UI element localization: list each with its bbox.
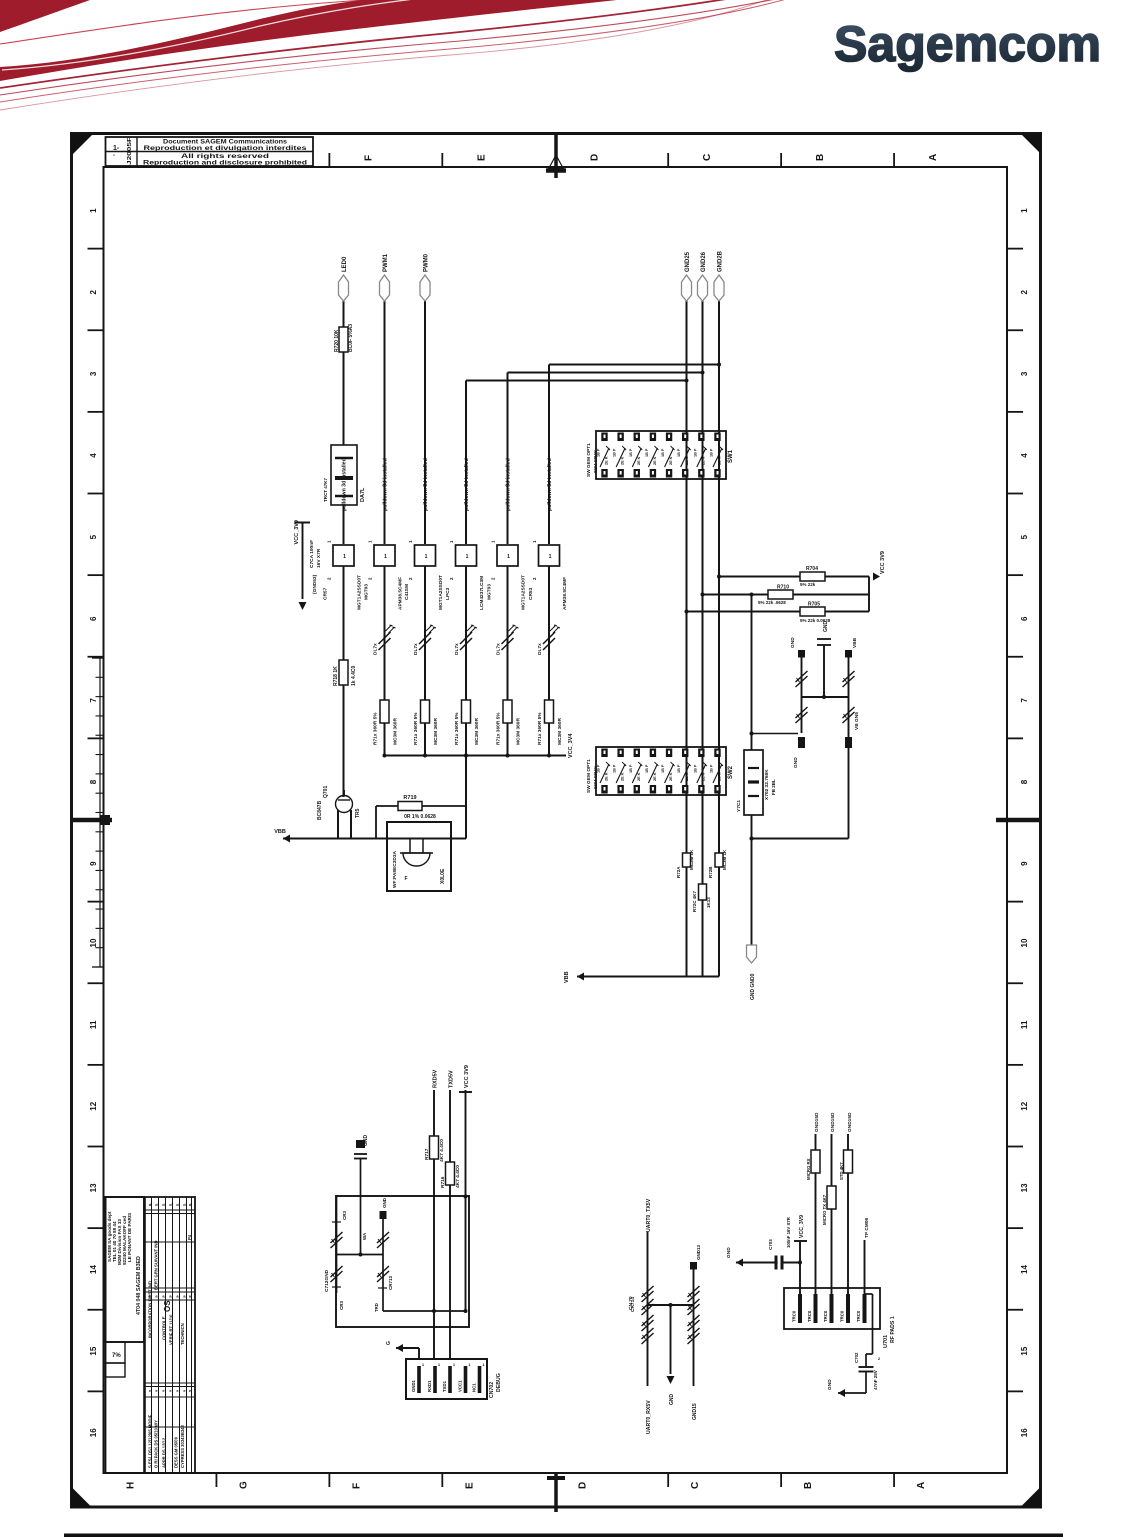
svg-text:GND15D: GND15D	[830, 1112, 836, 1132]
svg-text:DL7x: DL7x	[537, 643, 543, 655]
svg-text:pulldown 3d installed: pulldown 3d installed	[383, 458, 389, 511]
svg-text:F: F	[404, 876, 407, 882]
svg-text:13: 13	[89, 1183, 98, 1192]
svg-text:2E K: 2E K	[669, 456, 673, 465]
svg-text:GND: GND	[793, 757, 799, 768]
svg-text:MGT1A2SSD0T: MGT1A2SSD0T	[521, 575, 527, 610]
svg-text:GND: GND	[382, 1197, 387, 1208]
svg-text:GND15D: GND15D	[847, 1112, 853, 1132]
svg-text:R719: R719	[403, 795, 416, 801]
svg-text:DL7x: DL7x	[373, 643, 379, 655]
svg-text:F: F	[351, 1483, 362, 1489]
svg-text:7: 7	[89, 698, 98, 703]
svg-text:LED0: LED0	[342, 256, 348, 272]
svg-text:4K7 4.4C0: 4K7 4.4C0	[439, 1139, 445, 1162]
svg-text:R704: R704	[806, 566, 818, 572]
svg-text:15: 15	[89, 1346, 98, 1355]
svg-text:GND: GND	[790, 637, 796, 648]
svg-text:1: 1	[507, 554, 510, 560]
svg-text:VBB: VBB	[852, 637, 858, 648]
svg-text:CR714: CR714	[630, 1297, 636, 1312]
svg-text:GND GND0: GND GND0	[750, 973, 756, 1000]
svg-text:C7CA 100nF: C7CA 100nF	[309, 540, 315, 568]
svg-text:11: 11	[1020, 1020, 1029, 1029]
svg-text:-: -	[113, 153, 115, 159]
svg-text:R717: R717	[424, 1148, 430, 1160]
svg-text:2E K: 2E K	[717, 456, 721, 465]
svg-text:pulldown 3d installed: pulldown 3d installed	[547, 458, 553, 511]
svg-text:J2005F: J2005F	[127, 136, 133, 165]
svg-text:2E K: 2E K	[621, 456, 625, 465]
svg-text:LPC3: LPC3	[445, 587, 451, 600]
svg-text:1: 1	[1020, 208, 1029, 213]
svg-text:DL7x: DL7x	[413, 643, 419, 655]
svg-text:pulldown 3d installed: pulldown 3d installed	[423, 458, 429, 511]
svg-text:14: 14	[89, 1264, 98, 1273]
svg-text:UART0_RX5V: UART0_RX5V	[646, 1400, 652, 1434]
svg-text:GND: GND	[363, 1135, 369, 1147]
svg-text:VBB: VBB	[564, 971, 570, 983]
svg-text:GND26: GND26	[701, 251, 707, 272]
svg-text:CR57: CR57	[323, 587, 329, 600]
svg-text:SW2: SW2	[728, 765, 734, 779]
svg-text:2E K: 2E K	[685, 772, 689, 781]
svg-text:INCORPORATION FIRST IND: INCORPORATION FIRST IND	[148, 1281, 153, 1338]
svg-text:8: 8	[89, 779, 98, 784]
svg-text:12: 12	[1020, 1101, 1029, 1110]
svg-text:12: 12	[89, 1101, 98, 1110]
svg-text:VCC_3V9: VCC_3V9	[799, 1215, 805, 1238]
svg-text:BERT GRN SUIVANT IND: BERT GRN SUIVANT IND	[154, 1241, 159, 1290]
svg-text:4T04 048 SAGEM B3ED: 4T04 048 SAGEM B3ED	[136, 1256, 142, 1315]
svg-text:MGT1A2SSD0T: MGT1A2SSD0T	[357, 575, 363, 610]
svg-text:VCC1: VCC1	[458, 1380, 463, 1392]
svg-text:CR53: CR53	[528, 587, 534, 600]
svg-text:RXD5V: RXD5V	[433, 1069, 439, 1088]
svg-text:MC3M 1K: MC3M 1K	[722, 849, 727, 870]
svg-text:1B P: 1B P	[693, 448, 697, 457]
svg-text:VCC_3V9: VCC_3V9	[294, 520, 300, 544]
svg-text:PWM0: PWM0	[424, 253, 430, 272]
svg-text:1B P: 1B P	[709, 764, 713, 773]
svg-text:3: 3	[1020, 371, 1029, 376]
svg-text:WA: WA	[362, 1232, 367, 1240]
svg-text:UART0_TX5V: UART0_TX5V	[646, 1198, 652, 1232]
svg-text:2E K: 2E K	[653, 772, 657, 781]
svg-text:DESS GM 05/09: DESS GM 05/09	[174, 1436, 179, 1468]
svg-text:OS: OS	[163, 1300, 172, 1312]
svg-text:WF:PA8EC3D3A: WF:PA8EC3D3A	[392, 851, 398, 888]
svg-text:VERIF RT 11/10: VERIF RT 11/10	[169, 1314, 174, 1345]
svg-text:47nF 25V: 47nF 25V	[873, 1370, 878, 1390]
svg-text:1: 1	[466, 554, 469, 560]
svg-text:8: 8	[1020, 779, 1029, 784]
svg-text:2: 2	[89, 289, 98, 294]
svg-text:LCM4237LC3M: LCM4237LC3M	[479, 576, 485, 610]
svg-text:C41SM: C41SM	[404, 584, 410, 600]
svg-text:CR713: CR713	[388, 1275, 393, 1290]
svg-text:GND15D: GND15D	[814, 1112, 820, 1132]
svg-text:2E K: 2E K	[717, 772, 721, 781]
svg-text:MC3M 360R: MC3M 360R	[474, 718, 480, 745]
svg-text:5: 5	[89, 534, 98, 539]
svg-text:16V X7R: 16V X7R	[316, 548, 322, 568]
svg-text:APM38.5C4MF: APM38.5C4MF	[562, 577, 568, 610]
svg-text:MGT03: MGT03	[487, 584, 493, 600]
svg-text:U701: U701	[883, 1335, 889, 1348]
svg-text:FB 2BL: FB 2BL	[771, 779, 776, 795]
svg-text:6: 6	[89, 616, 98, 621]
svg-text:A: A	[916, 1482, 927, 1489]
svg-text:D: D	[577, 1482, 588, 1489]
svg-text:(GND53): (GND53)	[312, 574, 318, 594]
svg-text:BC847B: BC847B	[317, 800, 323, 820]
svg-text:1K13: 1K13	[706, 897, 711, 908]
svg-text:GND25: GND25	[685, 251, 691, 272]
svg-text:MICRO RX: MICRO RX	[806, 1158, 811, 1180]
svg-text:TR5: TR5	[355, 808, 361, 818]
svg-text:B: B	[815, 154, 826, 161]
svg-text:A: A	[928, 154, 939, 161]
svg-text:1: 1	[549, 554, 552, 560]
svg-text:1B P: 1B P	[661, 448, 665, 457]
svg-text:APM38.5C4MF: APM38.5C4MF	[398, 577, 404, 610]
svg-text:R716: R716	[440, 1176, 446, 1188]
svg-text:13: 13	[1020, 1183, 1029, 1192]
svg-text:1B P: 1B P	[709, 448, 713, 457]
svg-text:5% 22k: 5% 22k	[800, 582, 816, 587]
svg-text:R705: R705	[808, 602, 820, 608]
svg-text:CR3: CR3	[339, 1301, 344, 1310]
svg-text:R710: R710	[777, 585, 789, 591]
svg-text:1: 1	[89, 208, 98, 213]
svg-text:TRC0: TRC0	[823, 1310, 828, 1322]
svg-text:VCC 3V9: VCC 3V9	[880, 551, 886, 574]
svg-text:1-: 1-	[113, 145, 120, 152]
svg-text:C: C	[702, 154, 713, 161]
svg-text:CR3: CR3	[342, 1211, 347, 1220]
svg-text:DEBUG: DEBUG	[496, 1373, 502, 1392]
svg-text:8204 GRAY: 8204 GRAY	[593, 766, 598, 789]
svg-text:R72C 4K7: R72C 4K7	[692, 890, 697, 912]
svg-text:VCC 3V9: VCC 3V9	[464, 1065, 470, 1088]
svg-text:8204 GRAY: 8204 GRAY	[593, 450, 598, 473]
svg-text:Q701: Q701	[323, 786, 329, 798]
svg-text:O RI PACK DS 05/10 WY: O RI PACK DS 05/10 WY	[154, 1420, 159, 1468]
svg-text:2E K: 2E K	[669, 772, 673, 781]
svg-text:R72B: R72B	[708, 866, 713, 878]
svg-text:TRC0: TRC0	[840, 1310, 845, 1322]
svg-text:TRC0: TRC0	[807, 1310, 812, 1322]
svg-text:4K7 4.4C0: 4K7 4.4C0	[455, 1165, 461, 1188]
svg-text:R718 1K: R718 1K	[333, 666, 339, 686]
svg-text:X702 32.768K: X702 32.768K	[764, 769, 770, 800]
svg-text:MICRO TX 4K7: MICRO TX 4K7	[822, 1194, 827, 1225]
svg-text:R720 10K: R720 10K	[334, 329, 340, 352]
svg-text:TRCT 47K7: TRCT 47K7	[323, 477, 328, 502]
svg-text:MC3M 360R: MC3M 360R	[557, 718, 563, 745]
svg-text:1B P: 1B P	[661, 764, 665, 773]
svg-text:C702: C702	[854, 1352, 859, 1363]
svg-text:15: 15	[1020, 1346, 1029, 1355]
svg-text:LE PONANT DE PARIS: LE PONANT DE PARIS	[127, 1213, 132, 1262]
svg-text:16: 16	[89, 1428, 98, 1437]
svg-text:S ES1 DS1 12/12/05 MODIF: S ES1 DS1 12/12/05 MODIF	[148, 1414, 153, 1468]
svg-text:1B P: 1B P	[677, 448, 681, 457]
svg-text:Sagemcom: Sagemcom	[834, 16, 1101, 72]
svg-text:CONTROLE: CONTROLE	[162, 1316, 167, 1340]
svg-text:1: 1	[384, 554, 387, 560]
svg-text:STD 4K7: STD 4K7	[839, 1162, 844, 1180]
svg-text:16: 16	[1020, 1428, 1029, 1437]
svg-text:TRC0: TRC0	[856, 1310, 861, 1322]
svg-text:2E K: 2E K	[637, 772, 641, 781]
svg-text:pulldown 3d installed: pulldown 3d installed	[464, 458, 470, 511]
svg-text:2: 2	[1020, 289, 1029, 294]
svg-text:10: 10	[89, 938, 98, 947]
svg-text:1B P: 1B P	[677, 764, 681, 773]
svg-text:TRC0: TRC0	[792, 1310, 797, 1322]
svg-text:F: F	[363, 155, 374, 161]
svg-text:PWM1: PWM1	[383, 253, 389, 272]
svg-text:H: H	[126, 1482, 137, 1489]
svg-text:MGT1A2SSD0T: MGT1A2SSD0T	[438, 575, 444, 610]
svg-text:MC3M 360R: MC3M 360R	[393, 718, 399, 745]
svg-text:RXD1: RXD1	[427, 1380, 432, 1392]
svg-text:1B P: 1B P	[629, 448, 633, 457]
svg-text:TXD1: TXD1	[442, 1380, 447, 1392]
svg-text:10: 10	[1020, 938, 1029, 947]
svg-text:2E K: 2E K	[701, 772, 705, 781]
svg-text:Y7C1: Y7C1	[736, 800, 742, 812]
svg-text:DL7x: DL7x	[454, 643, 460, 655]
svg-text:BC0F 5%A3: BC0F 5%A3	[348, 324, 354, 352]
svg-text:5: 5	[1020, 534, 1029, 539]
svg-text:X0L0E: X0L0E	[440, 868, 446, 884]
svg-text:1: 1	[343, 554, 346, 560]
svg-text:DA7L: DA7L	[360, 487, 366, 502]
svg-text:4: 4	[1020, 453, 1029, 458]
svg-text:R71x 360R 5%: R71x 360R 5%	[496, 712, 502, 745]
svg-text:2E K: 2E K	[637, 456, 641, 465]
svg-text:GND15: GND15	[692, 1403, 698, 1420]
svg-text:1B P: 1B P	[613, 764, 617, 773]
svg-text:100nF 16V X7R: 100nF 16V X7R	[786, 1216, 791, 1248]
svg-text:1k 4.4C0: 1k 4.4C0	[351, 665, 357, 686]
svg-text:D: D	[589, 154, 600, 161]
svg-text:2E K: 2E K	[653, 456, 657, 465]
svg-text:7%: 7%	[112, 1353, 121, 1359]
svg-text:G: G	[238, 1481, 249, 1489]
svg-text:R71x 360R 5%: R71x 360R 5%	[537, 712, 543, 745]
svg-text:TECHNICN: TECHNICN	[180, 1323, 185, 1345]
svg-text:GND: GND	[726, 1247, 732, 1258]
svg-text:2E K: 2E K	[605, 772, 609, 781]
svg-text:CYPRESS 30343B343: CYPRESS 30343B343	[180, 1424, 185, 1468]
svg-text:MC3M 360R: MC3M 360R	[433, 718, 439, 745]
svg-text:RF PADS 1: RF PADS 1	[890, 1316, 896, 1343]
svg-text:GND2B: GND2B	[718, 250, 724, 272]
svg-text:C703: C703	[768, 1239, 773, 1250]
svg-text:R71x 360R 5%: R71x 360R 5%	[373, 712, 379, 745]
svg-text:DL7x: DL7x	[496, 643, 502, 655]
svg-text:6: 6	[1020, 616, 1029, 621]
svg-text:3: 3	[89, 371, 98, 376]
svg-text:1B P: 1B P	[645, 448, 649, 457]
svg-text:14: 14	[1020, 1264, 1029, 1273]
svg-text:G: G	[386, 1341, 392, 1345]
svg-text:MGT03: MGT03	[364, 584, 370, 600]
svg-text:1: 1	[425, 554, 428, 560]
svg-text:E: E	[464, 1482, 475, 1489]
svg-text:SW1: SW1	[728, 449, 734, 463]
svg-text:pulldown 3d installed: pulldown 3d installed	[506, 458, 512, 511]
svg-text:9: 9	[1020, 861, 1029, 866]
svg-text:TXD5V: TXD5V	[449, 1070, 455, 1088]
svg-text:2E K: 2E K	[701, 456, 705, 465]
svg-text:VCC_3V4: VCC_3V4	[568, 733, 574, 758]
svg-text:GND1: GND1	[411, 1379, 416, 1392]
svg-text:B: B	[803, 1482, 814, 1489]
svg-text:2E K: 2E K	[685, 456, 689, 465]
svg-text:2E K: 2E K	[621, 772, 625, 781]
svg-text:C: C	[690, 1482, 701, 1489]
svg-text:MC3M 1K: MC3M 1K	[689, 849, 694, 870]
svg-text:VBB: VBB	[274, 829, 286, 835]
svg-text:SW GEM OPT1: SW GEM OPT1	[586, 443, 592, 477]
svg-text:pulldown 3d installed: pulldown 3d installed	[342, 458, 348, 511]
svg-text:C712GND: C712GND	[324, 1269, 330, 1292]
svg-text:TRD: TRD	[374, 1303, 379, 1312]
svg-text:1B P: 1B P	[693, 764, 697, 773]
svg-text:MC3M 360R: MC3M 360R	[516, 718, 522, 745]
svg-text:P4: P4	[187, 1234, 192, 1240]
svg-text:VB GN5: VB GN5	[854, 712, 860, 730]
svg-text:GND: GND	[823, 621, 829, 633]
svg-text:0R 1% 0.0628: 0R 1% 0.0628	[404, 814, 436, 820]
svg-text:E: E	[476, 154, 487, 161]
svg-text:Reproduction et divulgation in: Reproduction et divulgation interdites	[144, 145, 308, 152]
svg-text:TP CM06: TP CM06	[864, 1217, 870, 1238]
svg-text:5% 22k .0628: 5% 22k .0628	[758, 600, 786, 605]
svg-text:APPR DS 12/12: APPR DS 12/12	[162, 1437, 167, 1468]
svg-text:7: 7	[1020, 698, 1029, 703]
svg-text:R72A: R72A	[676, 866, 681, 878]
svg-text:GND: GND	[827, 1379, 833, 1390]
svg-text:GND13: GND13	[696, 1244, 701, 1260]
svg-text:NC1: NC1	[472, 1383, 477, 1392]
svg-text:R71x 360R 5%: R71x 360R 5%	[413, 712, 419, 745]
svg-text:R71x 360R 5%: R71x 360R 5%	[454, 712, 460, 745]
svg-text:1B P: 1B P	[629, 764, 633, 773]
svg-text:11: 11	[89, 1020, 98, 1029]
svg-text:2E K: 2E K	[605, 456, 609, 465]
svg-text:SW GEM OPT1: SW GEM OPT1	[586, 759, 592, 793]
svg-text:9: 9	[89, 861, 98, 866]
svg-text:1B P: 1B P	[613, 448, 617, 457]
svg-text:CN702: CN702	[489, 1382, 495, 1398]
svg-text:Reproduction and disclosure pr: Reproduction and disclosure prohibited	[143, 160, 307, 167]
svg-text:1B P: 1B P	[645, 764, 649, 773]
svg-text:GND: GND	[669, 1394, 675, 1406]
svg-text:4: 4	[89, 453, 98, 458]
